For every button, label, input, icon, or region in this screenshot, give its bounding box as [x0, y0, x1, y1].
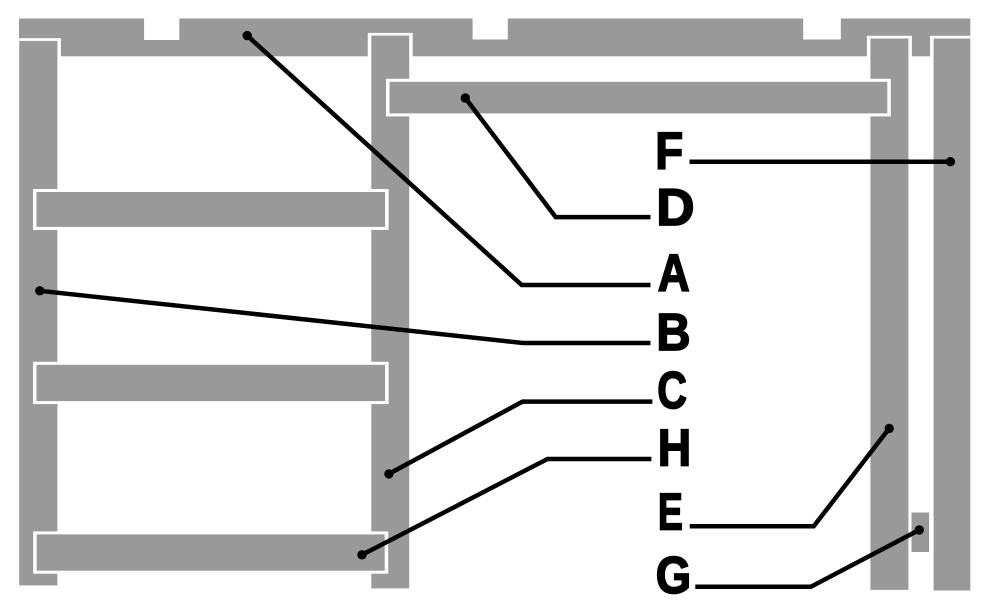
leader D — [461, 93, 651, 217]
rail D — [386, 79, 891, 117]
svg-text:E: E — [658, 482, 683, 541]
svg-text:B: B — [656, 303, 690, 362]
svg-text:H: H — [658, 419, 691, 477]
middle stud C — [368, 33, 413, 591]
svg-text:D: D — [656, 179, 694, 237]
block G — [912, 513, 930, 553]
upper left rail — [33, 189, 389, 230]
right stud F-side — [930, 36, 974, 594]
leader A — [243, 31, 651, 285]
leader E — [690, 424, 894, 527]
svg-text:G: G — [656, 547, 691, 604]
leader H — [357, 459, 651, 560]
lower left rail — [33, 362, 389, 404]
svg-text:C: C — [657, 361, 687, 419]
top plate F — [19, 19, 970, 57]
svg-text:A: A — [658, 244, 690, 302]
left stud B — [16, 38, 61, 588]
bottom rail H — [33, 531, 388, 573]
leader F — [690, 157, 956, 166]
leader C — [384, 402, 652, 479]
leader B — [35, 286, 650, 343]
leader G — [695, 525, 924, 587]
svg-text:F: F — [655, 123, 683, 180]
stud E — [867, 36, 912, 593]
